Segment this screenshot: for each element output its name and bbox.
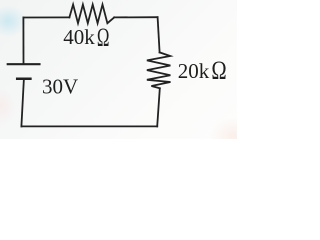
battery 30V positive plate (long) (8, 63, 40, 65)
label Ω for R1 (97, 23, 110, 52)
wire bottom (21, 125, 157, 127)
svg-text:40k: 40k (63, 25, 95, 49)
wire top-left segment (23, 16, 69, 18)
label 40k (63, 25, 95, 49)
wire right upper (top corner to R2) (158, 17, 160, 52)
wire right lower (R2 to bottom corner) (157, 88, 160, 126)
svg-text:Ω: Ω (97, 23, 110, 52)
svg-text:Ω: Ω (211, 56, 226, 85)
label 20k (178, 59, 210, 83)
label 30V (42, 74, 78, 98)
wire left lower (battery minus to bottom corner) (21, 79, 24, 127)
resistor 40kΩ (R1 zigzag) (69, 5, 114, 24)
wire top-right segment (114, 16, 157, 18)
svg-text:30V: 30V (42, 74, 78, 98)
svg-text:20k: 20k (178, 59, 210, 83)
battery 30V negative plate (short) (17, 78, 30, 81)
resistor 20kΩ (R2 zigzag) (147, 52, 171, 88)
label Ω for R2 (211, 56, 226, 85)
wire left upper (top corner to battery plus) (22, 18, 24, 64)
